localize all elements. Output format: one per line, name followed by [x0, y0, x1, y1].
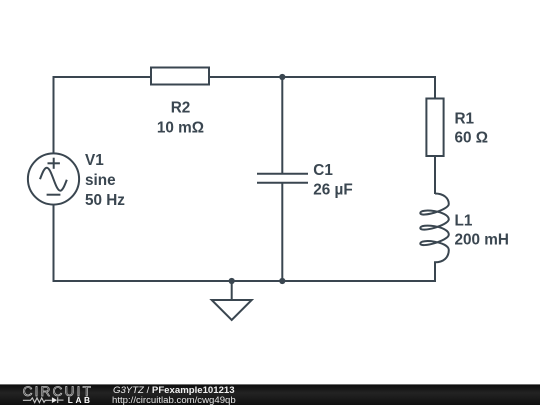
inductor L1: [420, 194, 449, 269]
wire bottom-right: ground node to L1 bottom: [232, 268, 435, 281]
capacitor C1: [257, 174, 308, 183]
node junction ground (bottom rail): [229, 278, 235, 284]
svg-text:60 Ω: 60 Ω: [455, 129, 489, 146]
wire C1 top lead: [281, 77, 283, 174]
CircuitLab logo diode: [52, 397, 64, 403]
svg-text:R2: R2: [171, 100, 191, 117]
svg-text:26 µF: 26 µF: [313, 182, 352, 199]
node junction bottom (C1 / bottom rail): [279, 278, 285, 284]
svg-text:http://circuitlab.com/cwg49qb: http://circuitlab.com/cwg49qb: [112, 395, 236, 405]
svg-text:L1: L1: [455, 212, 473, 229]
CircuitLab logo resistor zigzag: [23, 398, 52, 403]
svg-text:50 Hz: 50 Hz: [85, 192, 125, 209]
wire top-left: V1 top to R2 left: [54, 77, 152, 154]
resistor R2: [151, 68, 209, 85]
resistor R1: [426, 99, 443, 157]
svg-text:10 mΩ: 10 mΩ: [157, 119, 204, 136]
svg-text:LAB: LAB: [68, 395, 93, 405]
wire C1 bottom lead: [281, 183, 283, 281]
node junction top (C1 / top rail): [279, 74, 285, 80]
ground: [212, 281, 252, 320]
svg-text:C1: C1: [313, 162, 333, 179]
svg-text:R1: R1: [455, 110, 475, 127]
wire top-right: R2 right to R1 top: [209, 77, 435, 99]
wire R1 bottom to L1 top: [434, 156, 436, 195]
wire bottom-left: V1 bottom to ground node: [54, 204, 232, 281]
voltage source V1 (sine): [28, 153, 79, 204]
svg-text:200 mH: 200 mH: [455, 231, 509, 248]
svg-text:sine: sine: [85, 172, 116, 189]
svg-text:V1: V1: [85, 152, 104, 169]
